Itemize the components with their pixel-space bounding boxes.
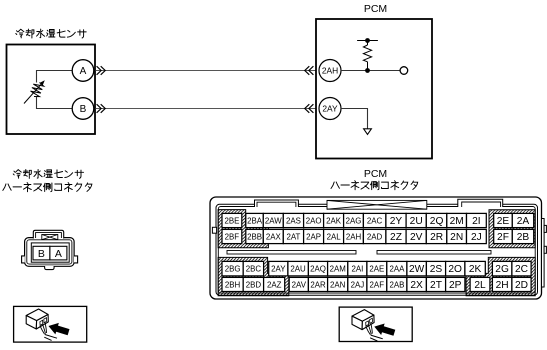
PCM connector rear plate right	[542, 219, 547, 288]
pin 2AW	[263, 213, 283, 227]
svg-text:2BG: 2BG	[225, 265, 241, 274]
sensor connector face	[31, 243, 69, 262]
pin 2AG	[344, 213, 364, 227]
svg-text:2BA: 2BA	[247, 216, 263, 225]
svg-text:2Q: 2Q	[430, 216, 444, 227]
pin 2AQ	[308, 261, 327, 276]
svg-text:2AC: 2AC	[367, 216, 383, 225]
PCM connector top tab left	[255, 200, 299, 207]
guide slot left	[227, 251, 356, 255]
pin 2W	[407, 261, 427, 276]
sensor connector top tab	[33, 230, 63, 238]
terminal cell A	[50, 246, 67, 260]
pin 2T	[426, 277, 445, 291]
pin 2X	[407, 277, 427, 291]
connector removal icon box (right)	[339, 307, 412, 341]
svg-text:2AB: 2AB	[389, 280, 404, 289]
svg-text:2H: 2H	[496, 280, 509, 291]
pin 2K	[465, 261, 485, 276]
pin B circle	[72, 98, 94, 120]
pin 2U	[406, 213, 426, 227]
PCM connector left latch notch	[212, 227, 216, 233]
svg-text:2AZ: 2AZ	[267, 280, 282, 289]
pin 2H	[492, 277, 512, 291]
sensor connector outer body	[25, 238, 75, 267]
pin 2P	[446, 277, 465, 291]
pin 2A	[512, 213, 533, 227]
svg-text:2V: 2V	[410, 232, 423, 243]
inline connector chevrons at PCM side wire B	[305, 104, 314, 113]
inline connector chevrons at sensor side wire B	[97, 104, 106, 113]
svg-text:2AX: 2AX	[266, 232, 282, 241]
ground symbol	[364, 129, 372, 135]
pin 2AB	[387, 277, 407, 291]
svg-text:PCM: PCM	[364, 168, 387, 180]
pin 2BC	[243, 261, 263, 276]
pin 2AM	[328, 261, 348, 276]
PCM connector top bowtie	[327, 200, 427, 209]
PCM connector inner wall outer line	[216, 204, 538, 295]
connector removal icon box (left)	[14, 306, 87, 342]
label harness-side connector (bottom-right)	[331, 181, 418, 190]
svg-text:2BC: 2BC	[246, 265, 262, 274]
pin 2L	[470, 277, 490, 291]
pin 2AY circle	[319, 98, 341, 120]
svg-text:2I: 2I	[472, 216, 481, 227]
pin 2N	[447, 229, 467, 243]
pin 2AS	[283, 213, 303, 227]
sensor connector bottom notch	[45, 266, 55, 270]
pin 2BE	[222, 213, 242, 227]
svg-text:2AS: 2AS	[286, 216, 301, 225]
PCM box	[316, 19, 432, 159]
terminal open circle	[400, 67, 408, 75]
svg-text:2W: 2W	[409, 264, 425, 275]
PCM connector inner wall inner line	[218, 207, 535, 294]
label coolant temp sensor (top-left)	[16, 29, 86, 38]
guide slot right	[377, 251, 491, 255]
pin 2AC	[363, 213, 386, 227]
svg-text:2AY: 2AY	[271, 265, 286, 274]
sensor connector inner wall	[27, 240, 72, 264]
pin 2I	[467, 213, 487, 227]
pin 2G	[492, 261, 512, 276]
svg-text:2AK: 2AK	[326, 216, 342, 225]
svg-text:2S: 2S	[430, 264, 443, 275]
pin 2E	[494, 213, 513, 227]
svg-text:2U: 2U	[410, 216, 423, 227]
pin 2B	[512, 229, 533, 243]
svg-text:2AW: 2AW	[265, 216, 282, 225]
svg-text:2AG: 2AG	[346, 216, 362, 225]
pin 2AF	[367, 277, 387, 291]
svg-text:2AI: 2AI	[351, 265, 363, 274]
wire A to PCM	[96, 70, 317, 72]
connector removal icon (left)	[26, 309, 69, 340]
hatched key group row1 left (2BE/2BF/2BB)	[218, 210, 268, 248]
svg-text:2AM: 2AM	[330, 265, 346, 274]
svg-text:2AH: 2AH	[346, 232, 362, 241]
svg-text:B: B	[38, 248, 45, 260]
sensor connector left ear	[22, 256, 25, 263]
junction node on 2AH wire	[365, 68, 370, 73]
pin A circle	[72, 60, 94, 82]
pin 2AP	[304, 229, 324, 243]
svg-text:2AD: 2AD	[367, 232, 383, 241]
pin 2AI	[348, 261, 367, 276]
pin 2C	[512, 261, 531, 276]
svg-text:2BE: 2BE	[224, 216, 239, 225]
svg-text:2L: 2L	[474, 280, 486, 291]
pull-up resistor	[363, 41, 371, 71]
label harness-side connector (bottom-left line 2)	[3, 183, 92, 192]
svg-text:2BB: 2BB	[247, 232, 262, 241]
svg-text:2AE: 2AE	[369, 265, 384, 274]
svg-text:2E: 2E	[497, 216, 510, 227]
pin 2Q	[426, 213, 447, 227]
supply rail stub	[357, 40, 378, 42]
pin 2AH circle	[319, 60, 341, 82]
inline connector chevrons at sensor side wire A	[97, 66, 106, 75]
pin 2D	[512, 277, 531, 291]
wire sensor internal top	[37, 71, 73, 83]
svg-text:2M: 2M	[450, 216, 464, 227]
inline connector chevrons at PCM side wire A	[305, 66, 314, 75]
wire 2AH internal	[340, 70, 400, 72]
supply node junction dot	[365, 38, 370, 43]
wire sensor internal bottom	[37, 97, 73, 109]
svg-text:2BH: 2BH	[225, 280, 241, 289]
pin 2BH	[222, 277, 243, 291]
svg-text:2AA: 2AA	[389, 265, 405, 274]
svg-text:2C: 2C	[515, 264, 528, 275]
hatched key group row2 left (2BG/2BC/2BH/2BD/2AZ)	[218, 257, 289, 295]
pin 2BD	[243, 277, 263, 291]
svg-text:2AV: 2AV	[292, 280, 307, 289]
svg-text:2AR: 2AR	[310, 280, 326, 289]
svg-text:2AP: 2AP	[306, 232, 321, 241]
label coolant temp sensor (bottom-left line 1)	[13, 170, 83, 179]
pin 2AK	[324, 213, 344, 227]
svg-text:2AN: 2AN	[330, 280, 346, 289]
connector removal icon (right)	[352, 310, 395, 341]
svg-text:A: A	[55, 248, 62, 260]
pin 2AY	[269, 261, 288, 276]
svg-text:2AU: 2AU	[290, 265, 306, 274]
pin 2AH	[344, 229, 364, 243]
hatched key group row2 right (2G/2C/2L/2H/2D)	[466, 257, 535, 295]
svg-text:2F: 2F	[497, 232, 509, 243]
svg-text:2D: 2D	[515, 280, 528, 291]
svg-text:B: B	[80, 104, 87, 115]
svg-text:2BF: 2BF	[225, 232, 240, 241]
terminal cell B	[33, 246, 50, 260]
pin 2AR	[308, 277, 327, 291]
pin 2AV	[289, 277, 308, 291]
svg-text:2AO: 2AO	[306, 216, 322, 225]
svg-text:2P: 2P	[449, 280, 462, 291]
pin 2AU	[288, 261, 309, 276]
svg-text:2AT: 2AT	[286, 232, 300, 241]
PCM connector top tab right	[458, 199, 503, 207]
svg-text:2AF: 2AF	[370, 280, 385, 289]
pin 2S	[426, 261, 445, 276]
svg-text:PCM: PCM	[364, 3, 387, 15]
svg-text:2A: 2A	[517, 216, 530, 227]
svg-text:2K: 2K	[469, 264, 482, 275]
svg-text:2AJ: 2AJ	[351, 280, 365, 289]
svg-text:2T: 2T	[430, 280, 442, 291]
svg-text:2AL: 2AL	[327, 232, 342, 241]
pin 2BB	[246, 229, 263, 243]
pin 2J	[467, 229, 487, 243]
wire 2AY to ground	[340, 109, 367, 129]
pin 2V	[406, 229, 426, 243]
svg-text:2AY: 2AY	[322, 104, 338, 114]
coolant temperature sensor box	[7, 45, 96, 135]
pin 2Y	[386, 213, 406, 227]
wire B to PCM	[96, 108, 317, 110]
pin 2Z	[386, 229, 406, 243]
pin 2R	[426, 229, 447, 243]
pin 2BF	[222, 229, 242, 243]
svg-text:2N: 2N	[450, 232, 463, 243]
svg-text:2X: 2X	[410, 280, 423, 291]
pin 2AD	[363, 229, 386, 243]
svg-text:2O: 2O	[448, 264, 462, 275]
svg-text:2AQ: 2AQ	[310, 265, 326, 274]
pin 2AN	[328, 277, 348, 291]
hatched key group row1 right (2E/2A/2F/2B)	[489, 210, 535, 248]
PCM connector outer housing	[210, 197, 542, 299]
pin 2AT	[283, 229, 303, 243]
pin 2O	[446, 261, 465, 276]
svg-text:2R: 2R	[430, 232, 443, 243]
svg-text:2AH: 2AH	[322, 66, 338, 76]
pin 2AA	[387, 261, 407, 276]
sensor connector right ear	[74, 256, 78, 263]
pin 2AJ	[348, 277, 367, 291]
pin 2AX	[263, 229, 283, 243]
pin 2M	[447, 213, 467, 227]
svg-text:2Z: 2Z	[390, 232, 402, 243]
svg-text:2Y: 2Y	[390, 216, 403, 227]
sensor connector top tab bowtie	[42, 235, 58, 240]
svg-text:A: A	[80, 66, 87, 77]
pin 2BG	[222, 261, 243, 276]
pin 2BA	[246, 213, 263, 227]
pin 2F	[494, 229, 513, 243]
thermistor element	[24, 80, 45, 103]
svg-text:2G: 2G	[495, 264, 509, 275]
pin 2AZ	[264, 277, 285, 291]
svg-text:2BD: 2BD	[246, 280, 262, 289]
svg-text:2J: 2J	[471, 232, 482, 243]
pin 2AL	[324, 229, 344, 243]
pin 2AE	[367, 261, 387, 276]
pin 2AO	[304, 213, 324, 227]
svg-text:2B: 2B	[517, 232, 530, 243]
